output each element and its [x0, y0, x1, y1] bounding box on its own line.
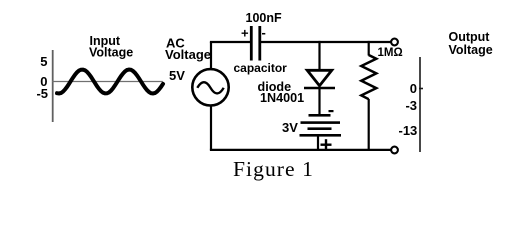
diode D1 cathode bar — [304, 87, 335, 90]
svg-text:Voltage: Voltage — [449, 43, 493, 57]
wire top rail left (source to capacitor) — [210, 41, 251, 43]
svg-text:1MΩ: 1MΩ — [378, 47, 403, 59]
svg-text:capacitor: capacitor — [234, 61, 288, 75]
svg-text:Voltage: Voltage — [89, 46, 133, 60]
battery B1 minus mark — [329, 110, 334, 112]
wire resistor branch bottom — [368, 99, 370, 150]
svg-text:3V: 3V — [282, 120, 298, 135]
svg-text:100nF: 100nF — [246, 11, 282, 25]
svg-text:5V: 5V — [169, 68, 185, 83]
wire top rail right (capacitor to output terminal) — [260, 41, 391, 43]
label Output Voltage — [449, 30, 493, 57]
svg-text:Output: Output — [449, 30, 491, 44]
output terminal top — [391, 39, 398, 46]
input plot y labels 5 0 -5 — [36, 54, 48, 101]
svg-text:0: 0 — [410, 81, 417, 96]
svg-text:-13: -13 — [399, 123, 418, 138]
input plot zero line — [52, 81, 163, 83]
label AC Voltage — [165, 36, 211, 63]
input plot y-axis — [52, 50, 54, 122]
output axis line — [419, 57, 421, 152]
diode D1 triangle — [307, 70, 332, 86]
output axis labels 0 -3 -13 — [399, 81, 418, 138]
svg-text:+: + — [241, 26, 249, 41]
AC source sine glyph — [197, 82, 223, 93]
wire bottom rail — [210, 149, 391, 151]
svg-text:-3: -3 — [405, 98, 417, 113]
input sine waveform — [57, 70, 163, 94]
battery B1 plates — [300, 114, 342, 137]
wire diode to battery — [318, 88, 320, 115]
output axis tick at 0 — [419, 88, 423, 90]
AC source V1 circle — [192, 69, 228, 105]
svg-text:Voltage: Voltage — [165, 47, 211, 62]
svg-text:5: 5 — [40, 54, 47, 69]
wire resistor branch top — [368, 41, 370, 56]
output terminal bottom — [391, 147, 398, 154]
wire battery to bottom rail — [317, 135, 319, 150]
svg-text:-: - — [262, 25, 266, 40]
wire AC source top — [210, 42, 212, 70]
resistor R1 zigzag — [361, 55, 376, 99]
wire AC source bottom — [210, 105, 212, 151]
svg-text:1N4001: 1N4001 — [260, 91, 304, 105]
battery B1 plus mark — [321, 139, 332, 150]
capacitor C1 plates — [251, 26, 259, 61]
input plot title "Input Voltage" — [89, 34, 133, 60]
svg-text:-5: -5 — [36, 86, 48, 101]
wire diode branch top — [318, 41, 320, 70]
svg-text:Figure 1: Figure 1 — [233, 157, 314, 181]
